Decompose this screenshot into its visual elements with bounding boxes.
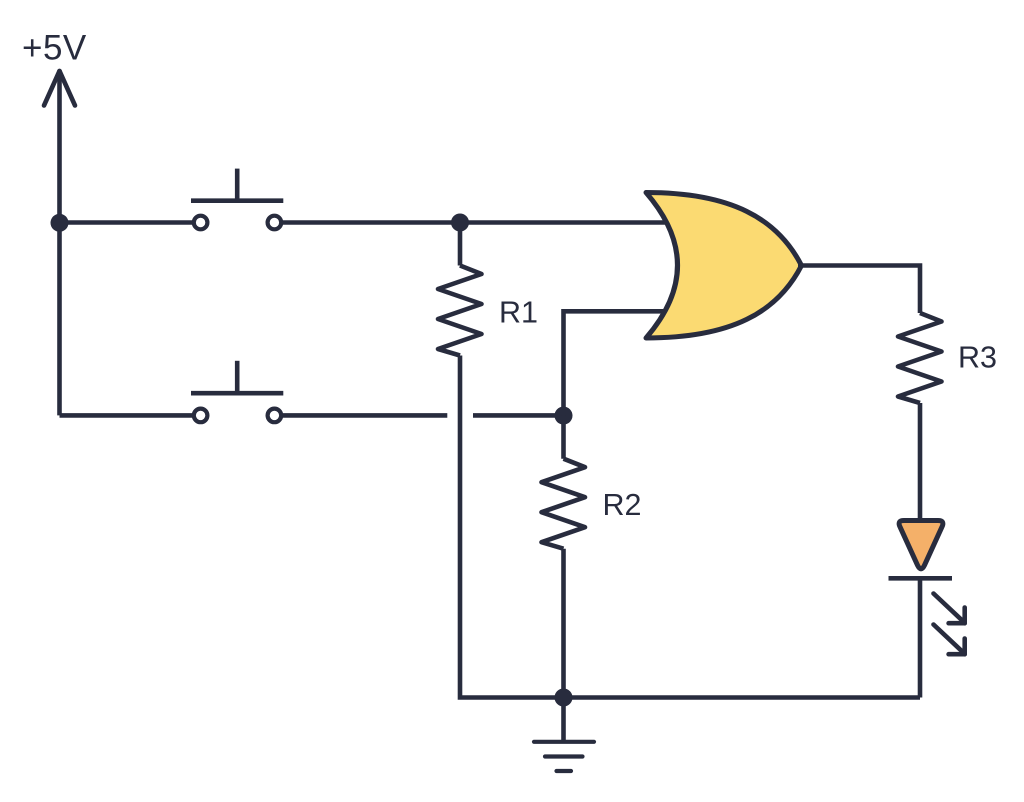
wire: node B to R1: [458, 223, 463, 266]
svg-text:R2: R2: [603, 488, 642, 522]
wire: R1 to bottom rail: [460, 356, 564, 698]
wire: node C up to OR gate input B: [564, 311, 669, 415]
wire: +5V rail vertical (arrow to SW2 row): [57, 71, 62, 415]
wire: SW1 to OR gate input A (through node B): [281, 220, 670, 225]
node B junction (SW1 wire / R1): [451, 214, 469, 232]
node A junction (+5V rail / SW1): [51, 214, 69, 232]
wire: SW2 row left segment: [60, 413, 195, 418]
wire: LED cathode to bottom rail: [918, 578, 923, 697]
pushbutton SW1: [191, 169, 283, 230]
pushbutton SW2: [191, 361, 283, 422]
wire: node A to SW1: [60, 220, 195, 225]
LED light arrow 1: [934, 594, 965, 624]
wire: R2 to ground node D: [561, 549, 566, 698]
LED light arrow 2: [934, 625, 965, 655]
ground symbol: [534, 698, 594, 772]
wire: SW2 to node C, left part (gap at R1 crossover): [281, 413, 447, 418]
LED D1 anode triangle: [899, 521, 943, 569]
wire: bottom rail node D to LED branch: [564, 695, 921, 700]
svg-text:R1: R1: [499, 296, 538, 330]
resistor R2: [542, 459, 586, 549]
resistor R3: [898, 313, 942, 403]
LED D1 cathode bar: [889, 576, 953, 581]
resistor R1: [438, 266, 482, 356]
wire: node C to R2: [561, 416, 566, 459]
wire: OR gate output to R3: [798, 266, 920, 314]
svg-text:+5V: +5V: [22, 29, 87, 68]
wire: SW2 to node C, right part after crossover gap: [473, 413, 564, 418]
OR gate U1: [646, 193, 802, 339]
node C junction (SW2 / R2 / gate input B): [555, 407, 573, 425]
svg-text:R3: R3: [958, 341, 997, 375]
power +5V arrow symbol: [44, 71, 75, 106]
wire: R3 to LED D1: [918, 403, 923, 521]
node D junction (ground): [555, 689, 573, 707]
